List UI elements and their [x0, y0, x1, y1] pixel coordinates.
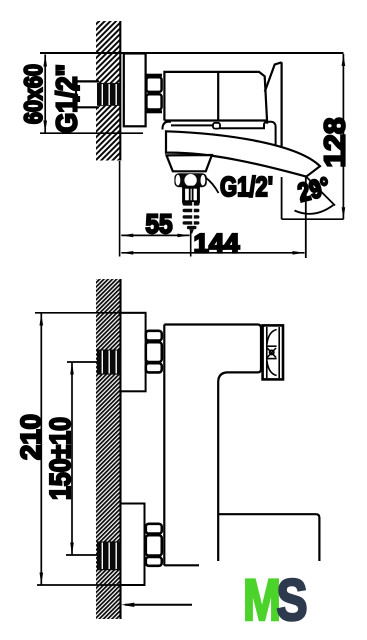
hose barb ribs: [183, 202, 200, 233]
trim lines under body: [171, 124, 214, 126]
extension under spout: [305, 176, 307, 258]
wall face line: [119, 21, 121, 161]
dimension 144: [121, 252, 304, 254]
svg-text:150±10: 150±10: [45, 417, 77, 500]
svg-text:55: 55: [146, 209, 173, 239]
dimension 55: [121, 234, 189, 236]
shower hex nut: [174, 173, 206, 187]
dimension 150+-10: [71, 363, 73, 555]
body bar left edge: [163, 325, 165, 566]
svg-text:G1/2': G1/2': [220, 171, 273, 202]
lower plate: [121, 504, 145, 586]
29 degree angle: [307, 177, 336, 206]
svg-text:S: S: [277, 568, 308, 633]
hose extension: [190, 231, 192, 257]
lower plate bottom extension: [37, 584, 145, 586]
svg-text:G1/2": G1/2": [52, 64, 84, 133]
top line: [40, 52, 344, 54]
hose connector cylinder: [184, 187, 199, 202]
upper hex nut: [146, 331, 162, 373]
threaded pipe in wall: [97, 83, 121, 106]
body divider: [217, 72, 219, 121]
spout (waterfall): [166, 131, 320, 176]
dimension 210: [40, 314, 42, 585]
body bar bottom: [164, 564, 199, 566]
wall face extension: [119, 161, 121, 257]
body arm with corner: [164, 325, 261, 562]
svg-text:M: M: [243, 568, 281, 633]
dimension 128: [282, 54, 344, 219]
inlet stub G1/2: [76, 81, 99, 107]
shower outlet neck: [167, 155, 212, 171]
spout plate (big rect): [218, 514, 319, 561]
thread marks: [78, 85, 81, 102]
G1/2' label with leader: [206, 178, 219, 194]
faucet body: [164, 72, 267, 124]
wall face line: [119, 279, 121, 619]
upper plate top extension: [35, 312, 146, 314]
handle lever: [265, 62, 282, 91]
svg-text:144: 144: [194, 229, 240, 259]
wall hatch (top view): [96, 21, 120, 161]
handle knob end: [263, 325, 283, 379]
handle right edge / extension line upper part: [281, 62, 283, 146]
lower hex nut: [146, 524, 162, 566]
svg-text:60x60: 60x60: [20, 64, 48, 124]
svg-text:128: 128: [320, 118, 352, 168]
dimension 60x60: [40, 55, 143, 134]
upper threaded pipe: [97, 350, 121, 375]
wall plate (escutcheon): [124, 54, 146, 127]
wall hatch (front view): [96, 279, 121, 619]
extension line lower part: [281, 177, 283, 219]
svg-text:210: 210: [15, 414, 46, 460]
hex nut (eccentric connector): [146, 75, 162, 112]
wall arrow: [125, 604, 192, 606]
MS watermark: [243, 568, 308, 633]
lower threaded pipe: [97, 541, 121, 570]
upper plate: [121, 313, 146, 392]
